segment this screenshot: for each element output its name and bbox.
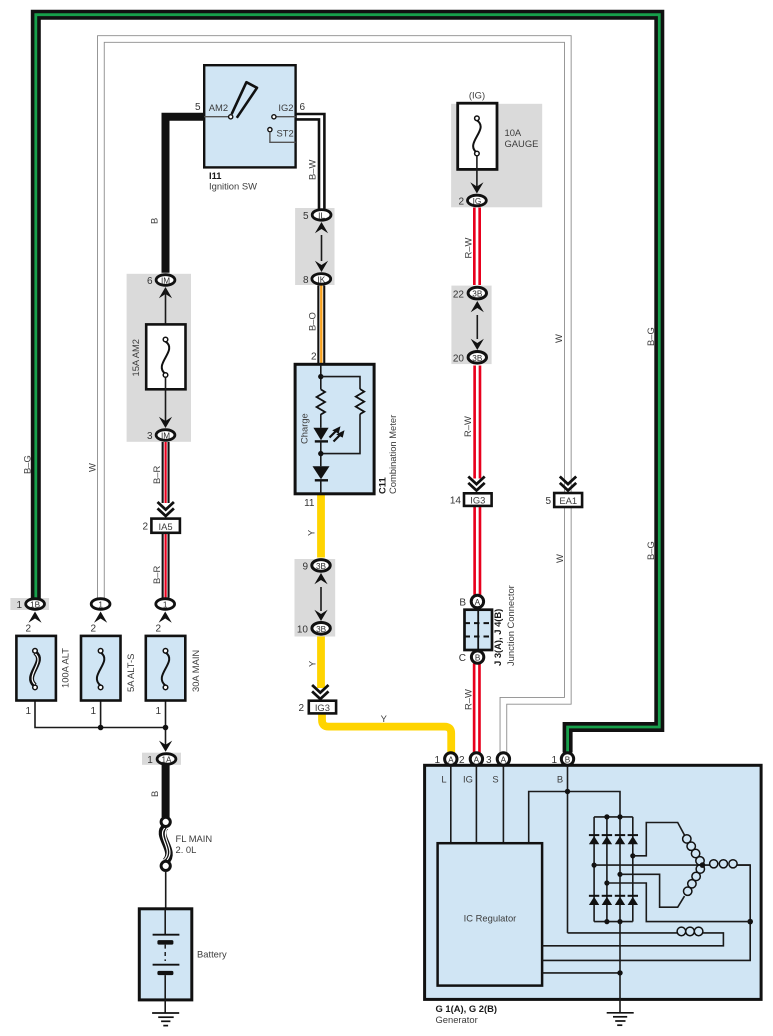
wire Y (IG3 to generator L) <box>322 713 451 752</box>
svg-text:2: 2 <box>298 703 304 714</box>
stator neutral line <box>594 864 702 866</box>
terminal circle 1(A) L <box>434 753 457 766</box>
arrow down into 20 3B <box>471 339 484 350</box>
junction dot bus/30A MAIN <box>163 725 169 731</box>
svg-text:I11: I11 <box>209 170 222 181</box>
fuse 15A AM2 <box>130 324 186 389</box>
svg-text:IC Regulator: IC Regulator <box>464 913 517 924</box>
svg-text:Battery: Battery <box>197 949 227 960</box>
svg-text:2: 2 <box>459 755 465 766</box>
combination meter C11 <box>295 364 374 494</box>
svg-text:3B: 3B <box>316 562 327 571</box>
svg-text:IL: IL <box>318 211 325 220</box>
right branch of charge lamp <box>321 377 360 389</box>
generator box <box>425 765 761 999</box>
rotor coil to regulator <box>542 933 723 946</box>
IG2 contact circle <box>272 115 276 119</box>
svg-text:B–R: B–R <box>151 466 162 484</box>
AM2 contact circle <box>229 115 233 119</box>
junction connector circle C(B) <box>459 651 484 664</box>
svg-text:3B: 3B <box>316 625 327 634</box>
svg-text:2: 2 <box>155 624 161 635</box>
svg-text:2. 0L: 2. 0L <box>176 844 197 855</box>
wire B-G (battery to generator B) black with green stripe <box>36 15 660 753</box>
gray box behind connector 1A <box>142 753 181 765</box>
svg-text:A: A <box>474 756 480 765</box>
svg-text:10: 10 <box>297 625 309 636</box>
diode bottom row (4 rectifier diodes) <box>589 896 638 905</box>
wire W (ALT-S fuse to generator S) white with gray edges <box>101 39 568 753</box>
svg-text:AM2: AM2 <box>209 102 228 113</box>
svg-text:11: 11 <box>304 498 315 509</box>
svg-text:IG3: IG3 <box>470 494 485 505</box>
svg-text:1: 1 <box>551 755 557 766</box>
svg-text:B: B <box>149 791 160 797</box>
ignition switch I11 box <box>204 65 295 167</box>
junction connector J3/J4 grid <box>465 610 493 650</box>
gray box behind 15A AM2 fuse <box>127 274 191 442</box>
wire Y (meter pin 11 to 9 3B) <box>317 494 325 558</box>
junction connector circle B(A) <box>459 595 483 608</box>
B terminal wire down <box>567 766 569 933</box>
terminal wires to regulator <box>450 766 452 843</box>
svg-text:1B: 1B <box>30 600 41 609</box>
svg-text:W: W <box>554 554 565 563</box>
wire B-O (8 IK to combination meter pin 2) <box>317 286 325 365</box>
stator phase 3 lead (to lower coil) <box>620 874 685 907</box>
wire B-R (3 IM to 2 IA5) <box>162 442 170 503</box>
svg-text:B–R: B–R <box>151 566 162 584</box>
svg-text:10A: 10A <box>505 127 522 138</box>
svg-text:B–G: B–G <box>22 455 33 474</box>
connector 1 above 30A MAIN <box>156 599 175 623</box>
svg-text:R–W: R–W <box>463 238 474 259</box>
LED charge lamp <box>313 428 328 441</box>
svg-text:B: B <box>565 756 571 765</box>
connector 5 IL <box>303 210 331 222</box>
svg-text:1: 1 <box>90 706 96 717</box>
svg-text:Y: Y <box>381 713 388 724</box>
arrow up into IL <box>315 222 328 233</box>
B feed to regulator and rectifier <box>529 792 620 844</box>
svg-text:S: S <box>492 774 498 785</box>
svg-text:R–W: R–W <box>462 416 473 437</box>
junction dot regulator ground <box>617 970 622 975</box>
connector 22 3B <box>453 287 487 300</box>
svg-text:B–O: B–O <box>307 312 318 331</box>
svg-text:W: W <box>553 334 564 343</box>
connector 3 IM <box>147 417 175 442</box>
connector 9 3B <box>302 560 330 573</box>
junction dot top bus leg3 <box>617 814 622 819</box>
svg-text:2: 2 <box>458 197 464 208</box>
fusible link FL MAIN 2.0L <box>161 817 212 870</box>
stator phase 4 lead <box>607 883 750 922</box>
gray box behind connector 1B <box>10 598 49 610</box>
svg-text:B–W: B–W <box>307 160 318 180</box>
svg-text:2: 2 <box>90 624 96 635</box>
chevrons into IG3 <box>312 685 328 699</box>
svg-text:Junction Connector: Junction Connector <box>505 585 516 666</box>
diode top row (4 rectifier diodes) <box>589 835 638 844</box>
svg-text:IM: IM <box>161 431 170 440</box>
svg-text:5: 5 <box>195 102 201 113</box>
svg-text:W: W <box>87 463 98 472</box>
gray box behind 22/20 3B connectors <box>451 286 491 365</box>
wire 9 3B to 10 3B <box>320 587 322 611</box>
svg-text:IM: IM <box>161 276 170 285</box>
connector 6 IM <box>147 275 175 299</box>
svg-text:100A ALT: 100A ALT <box>60 648 71 688</box>
svg-text:IG: IG <box>473 197 482 206</box>
middle coil to sense junction <box>542 865 750 960</box>
arrow down into 10 3B <box>314 610 327 621</box>
svg-text:Y: Y <box>306 660 317 667</box>
connector 2 IG <box>458 195 486 207</box>
terminal circle 2(A) IG <box>459 753 483 766</box>
svg-text:1: 1 <box>147 755 153 766</box>
wire from 5A ALT-S pin1 to bus <box>100 701 102 728</box>
svg-text:B–G: B–G <box>645 541 656 560</box>
wire R-W (2 IG to 22 3B) <box>473 208 481 286</box>
svg-text:IG: IG <box>463 774 473 785</box>
svg-text:9: 9 <box>302 562 308 573</box>
gray box behind 10A GAUGE fuse <box>451 104 542 208</box>
svg-text:8: 8 <box>303 275 309 286</box>
svg-text:2: 2 <box>311 352 317 363</box>
wire R-W (IG3 to junction connector B) <box>473 506 481 595</box>
wire fuse to 3 IM <box>165 377 167 424</box>
right resistor <box>356 389 364 414</box>
AM2 contact lead <box>204 116 229 118</box>
svg-text:3: 3 <box>486 755 492 766</box>
svg-text:Generator: Generator <box>436 1014 478 1025</box>
svg-text:FL MAIN: FL MAIN <box>176 833 213 844</box>
svg-text:6: 6 <box>147 276 153 287</box>
phase tap dot leg4 <box>630 853 635 858</box>
svg-text:5A ALT-S: 5A ALT-S <box>125 654 136 692</box>
svg-text:1: 1 <box>25 706 31 717</box>
stator lower coil <box>684 865 705 896</box>
svg-text:5: 5 <box>303 211 309 222</box>
connector 10 3B <box>297 623 330 636</box>
svg-text:Combination Meter: Combination Meter <box>387 415 398 494</box>
svg-text:1: 1 <box>434 755 440 766</box>
left resistor <box>317 389 325 414</box>
rotor field coil <box>677 927 703 936</box>
wire FL MAIN to battery <box>165 870 167 909</box>
fuse 100A ALT <box>16 624 70 718</box>
svg-text:2: 2 <box>142 522 148 533</box>
svg-text:5: 5 <box>545 496 551 507</box>
connector 2 IA5 <box>142 519 179 533</box>
svg-text:B–G: B–G <box>645 327 656 346</box>
svg-text:1: 1 <box>163 600 168 609</box>
svg-text:(IG): (IG) <box>469 90 485 101</box>
svg-text:3B: 3B <box>472 290 483 299</box>
svg-text:B: B <box>149 218 160 224</box>
connector 1B (to B-G) <box>16 599 44 623</box>
connector 20 3B <box>453 352 487 365</box>
junction dot stator sense <box>747 919 753 925</box>
svg-text:Ignition SW: Ignition SW <box>209 181 257 192</box>
connector 2 IG3 <box>298 701 336 714</box>
wire B thick (1A to FL MAIN) <box>162 765 170 817</box>
wire B-W (ignition IG2 to 5 IL) <box>296 117 322 209</box>
phase tap dot leg3 <box>617 872 622 877</box>
wire B-R (IA5 to connector 1 of 30A MAIN) <box>162 533 170 598</box>
regulator ground lead <box>542 972 620 974</box>
svg-text:2: 2 <box>25 624 31 635</box>
phase tap dot leg2 <box>604 880 609 885</box>
gray box behind IL/IK connectors <box>295 208 334 285</box>
svg-text:J 3(A), J 4(B): J 3(A), J 4(B) <box>492 609 503 666</box>
chevrons into 14 IG3 <box>468 477 484 491</box>
svg-text:IK: IK <box>317 275 325 284</box>
arrow down into IK <box>315 261 328 272</box>
svg-text:A: A <box>501 756 507 765</box>
wire Y (10 3B to 2 IG3) <box>317 637 325 689</box>
ST2 contact circle and stem <box>268 128 272 132</box>
diode <box>313 466 330 479</box>
junction dot bus/ALT-S <box>98 725 104 731</box>
svg-text:30A MAIN: 30A MAIN <box>190 650 201 692</box>
stator middle coil <box>703 860 751 868</box>
svg-text:B: B <box>475 654 481 663</box>
IC Regulator <box>438 843 542 985</box>
stator phase 1 lead (to upper coil) <box>633 823 685 856</box>
svg-text:IG3: IG3 <box>315 702 330 713</box>
svg-text:Y: Y <box>306 529 317 536</box>
svg-text:GAUGE: GAUGE <box>505 138 539 149</box>
IG2 contact lead <box>276 116 296 118</box>
svg-text:1A: 1A <box>161 755 172 764</box>
phase tap dot leg1 <box>592 863 597 868</box>
switch lever <box>232 82 257 118</box>
svg-text:1: 1 <box>16 600 22 611</box>
svg-text:3: 3 <box>147 431 153 442</box>
chevrons into 5 EA1 <box>560 477 576 491</box>
svg-text:A: A <box>475 598 481 607</box>
gray box behind 9/10 3B connectors <box>295 559 336 637</box>
connector 8 IK <box>303 274 331 286</box>
wire IL to IK <box>321 235 323 261</box>
junction dot bottom bus leg2 <box>604 919 609 924</box>
svg-text:20: 20 <box>453 354 465 365</box>
svg-text:3B: 3B <box>472 354 483 363</box>
terminal circle 3(A) S <box>486 753 510 766</box>
junction dot top bus leg2 <box>604 814 609 819</box>
svg-text:C: C <box>459 653 466 664</box>
wire IM to fuse <box>165 289 167 338</box>
fuse 10A GAUGE <box>458 103 539 169</box>
battery <box>139 909 227 1013</box>
rotor field coil feed <box>568 932 678 934</box>
wire R-W (20 3B to 14 IG3) <box>473 366 481 479</box>
wire 22 3B to 20 3B <box>476 315 478 339</box>
generator ground line <box>619 922 621 1013</box>
svg-text:14: 14 <box>450 496 462 507</box>
svg-text:15A AM2: 15A AM2 <box>130 339 141 377</box>
fuse 30A MAIN <box>146 624 201 718</box>
svg-text:IG2: IG2 <box>278 102 293 113</box>
connector 1 above 5A ALT-S <box>91 599 110 623</box>
chevrons into IA5 <box>158 502 174 516</box>
svg-text:22: 22 <box>453 290 465 301</box>
svg-text:L: L <box>441 774 446 785</box>
svg-text:EA1: EA1 <box>559 495 577 506</box>
wire fuse to 2 IG <box>476 156 478 190</box>
stator upper coil <box>683 835 705 865</box>
svg-text:1: 1 <box>98 600 103 609</box>
connector 14 IG3 <box>450 493 492 506</box>
arrow up into 9 3B <box>314 573 327 584</box>
ground under battery <box>152 1013 179 1026</box>
wire from 100A ALT pin1 to bus <box>35 701 166 728</box>
connector 5 EA1 <box>545 493 582 507</box>
wire from 30A MAIN pin1 through bus to 1A <box>165 701 167 747</box>
svg-text:B: B <box>557 774 563 785</box>
wire R-W (junction connector C to generator IG) <box>473 664 481 753</box>
svg-text:R–W: R–W <box>463 689 474 710</box>
fuse 5A ALT-S <box>81 624 136 718</box>
wire B thick (ignition AM2 to 6 IM) <box>166 117 205 273</box>
svg-text:G 1(A), G 2(B): G 1(A), G 2(B) <box>436 1003 497 1014</box>
terminal circle 1(B) B <box>551 753 573 766</box>
junction dot bottom bus leg3 <box>617 919 622 924</box>
stator Y point <box>700 862 706 868</box>
svg-text:ST2: ST2 <box>277 128 294 139</box>
svg-text:B: B <box>459 598 466 609</box>
arrow up into 22 3B <box>471 301 484 312</box>
rectifier bridge <box>594 817 633 922</box>
svg-text:Charge: Charge <box>299 413 310 444</box>
svg-text:A: A <box>448 756 454 765</box>
svg-text:IA5: IA5 <box>159 521 173 532</box>
connector 1A <box>142 741 181 766</box>
junction dot B feed <box>565 789 570 794</box>
svg-text:6: 6 <box>300 102 306 113</box>
svg-text:C11: C11 <box>377 477 388 494</box>
ground under generator <box>607 1013 634 1025</box>
svg-text:1: 1 <box>155 706 161 717</box>
